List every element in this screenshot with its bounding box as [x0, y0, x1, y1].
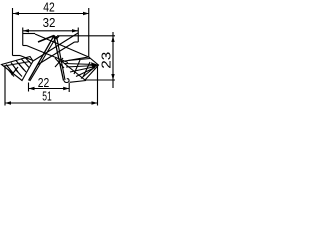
dimension 42 text [43, 0, 55, 15]
dimension 42 right arrow [83, 12, 89, 15]
dimension 32 right arrow [72, 29, 78, 32]
dimension 32 line [23, 30, 78, 32]
right wing outline [62, 57, 99, 80]
dimension 23 (vertical, right side) text rotated [99, 52, 114, 69]
right wing ray 2 [66, 66, 96, 68]
dimension 51 text [42, 89, 52, 104]
sliver A upper edge (top-right to left wing) [33, 33, 78, 61]
shape: left tab foot [23, 45, 27, 47]
shape: right tab foot [75, 41, 79, 43]
left wing outline [2, 57, 34, 81]
right wing cross hatch [74, 60, 80, 74]
sliver B lower edge [27, 46, 69, 63]
central V right leg outer line [57, 36, 66, 80]
central hatch cross 2 [55, 58, 63, 67]
dimension 22 text [38, 75, 50, 90]
dimension 23 top arrow [111, 36, 114, 42]
sliver A lower edge [38, 42, 75, 65]
extension line left (51) from wing tip [4, 66, 6, 106]
right wing cross hatch 2 [83, 62, 90, 77]
left wing hatch 2 [11, 63, 18, 73]
right wing ray 3 [70, 67, 96, 73]
left wing hatch 4 [16, 61, 24, 71]
right wing ray 6 [68, 59, 90, 61]
shape: left top horizontal edge (tab) [23, 33, 35, 35]
extension line right (22) [68, 83, 70, 92]
dimension 22 line [29, 88, 70, 90]
dimension 32 left arrow [23, 29, 29, 32]
dimension 22 right arrow [63, 87, 69, 90]
svg-text:51: 51 [42, 89, 52, 104]
left wing hatch 8 [19, 64, 26, 72]
right wing ray 5 [81, 69, 93, 79]
dimension 42 left arrow [13, 12, 19, 15]
sliver B upper edge (top-left to right wing) [35, 34, 89, 57]
extension line right (51) from wing tip [97, 66, 99, 106]
left wing hatch 3 [15, 69, 22, 77]
right wing ray 1 [64, 64, 96, 65]
right wing ray 4 [76, 68, 95, 77]
extension line left (32) merging into tab edge [22, 28, 24, 46]
extension line right (42) merging into shape right edge [88, 8, 90, 57]
left wing hatch 6 [25, 58, 32, 65]
left wing hatch 1 [6, 65, 13, 74]
central V right leg inner line [54, 37, 64, 81]
dimension 22 left arrow [29, 87, 35, 90]
left wing hatch 5 [21, 59, 29, 68]
dimension 23 bottom arrow [111, 74, 114, 80]
extension line right (32) merging into tab edge [77, 28, 79, 43]
right wing filled tip [91, 62, 99, 68]
dimension 23 line [112, 32, 114, 88]
dimension 42 line [13, 13, 89, 15]
svg-text:23: 23 [99, 52, 114, 69]
svg-text:42: 42 [43, 0, 55, 15]
apex rising edge [38, 36, 54, 43]
left wing cross hatch [12, 67, 19, 75]
extension line left (22) [28, 83, 30, 92]
left wing hatch 7 [8, 70, 14, 77]
apex peak inner bump [54, 36, 59, 39]
dimension 32 text [43, 15, 56, 30]
wing lower connecting edge [70, 81, 87, 83]
shape: bottom-left horizontal ledge [13, 55, 21, 57]
extension line top (23) merging with shape top right edge [57, 35, 115, 37]
central V bottom tip join [64, 79, 69, 83]
shape: beak lower edge from ledge [20, 56, 33, 61]
left wing inner top edge [4, 62, 30, 67]
extension line left (42) merging into shape left edge [12, 8, 14, 56]
svg-text:32: 32 [43, 15, 56, 30]
central hatch cross 1 [55, 58, 64, 68]
dimension 51 left arrow [5, 101, 11, 104]
dimension 51 line [5, 102, 98, 104]
central V left leg inner line [30, 38, 56, 82]
central V left leg outer line [29, 37, 54, 81]
dimension 51 right arrow [92, 101, 98, 104]
extension line bottom (23) [85, 79, 115, 81]
